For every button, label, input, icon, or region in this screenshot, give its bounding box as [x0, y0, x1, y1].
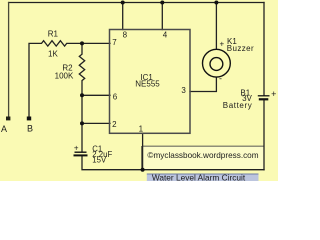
svg-text:2: 2 — [112, 120, 117, 129]
svg-text:1: 1 — [139, 124, 144, 133]
svg-text:NE555: NE555 — [135, 80, 160, 89]
svg-text:15V: 15V — [92, 156, 107, 165]
svg-text:R1: R1 — [48, 30, 59, 39]
svg-text:B: B — [27, 123, 33, 133]
svg-text:Water Level Alarm Circuit: Water Level Alarm Circuit — [152, 172, 246, 181]
svg-text:+: + — [271, 89, 276, 99]
svg-text:Battery: Battery — [223, 101, 253, 110]
svg-text:6: 6 — [113, 93, 118, 102]
svg-text:3: 3 — [181, 86, 186, 95]
svg-text:100K: 100K — [55, 71, 74, 80]
svg-text:©myclassbook.wordpress.com: ©myclassbook.wordpress.com — [147, 151, 258, 160]
svg-text:4: 4 — [163, 31, 168, 40]
svg-text:A: A — [1, 124, 7, 134]
svg-text:+: + — [74, 144, 79, 153]
svg-text:+: + — [219, 40, 224, 49]
svg-text:1K: 1K — [48, 49, 58, 58]
svg-text:7: 7 — [112, 38, 117, 47]
svg-text:Buzzer: Buzzer — [227, 44, 254, 53]
svg-text:8: 8 — [123, 30, 128, 39]
svg-text:-: - — [219, 74, 222, 84]
